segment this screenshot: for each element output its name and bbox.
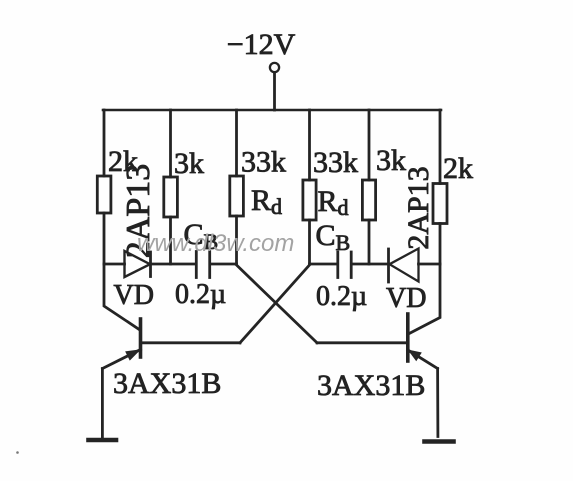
svg-text:Rd: Rd bbox=[251, 184, 282, 219]
svg-text:2k: 2k bbox=[443, 152, 473, 185]
svg-text:33k: 33k bbox=[313, 146, 358, 179]
wire right branch drop to base bbox=[408, 264, 440, 334]
transistor Q1 3AX31B (left) bbox=[103, 319, 222, 400]
wire right row segment C bbox=[419, 263, 441, 266]
wire right emitter down bbox=[436, 369, 439, 437]
wire left branch drop to base bbox=[104, 264, 140, 330]
resistor R1 2k (left) bbox=[97, 110, 138, 264]
svg-text:CB: CB bbox=[316, 219, 351, 255]
resistor R6 2k (right) bbox=[433, 110, 473, 264]
wire left row segment A bbox=[104, 263, 125, 266]
wire power drop bbox=[273, 73, 276, 111]
svg-text:0.2µ: 0.2µ bbox=[175, 279, 226, 310]
wire cross-couple diagonal B (right 33k to left collector) bbox=[240, 265, 310, 343]
wire cross-couple diagonal A (left 33k to right collector) bbox=[237, 265, 318, 343]
svg-text:VD: VD bbox=[114, 280, 154, 311]
diode VD2 2AP13 (right) bbox=[386, 249, 426, 315]
wire left emitter down bbox=[101, 369, 104, 438]
wire left collector horizontal bbox=[141, 341, 241, 344]
wire left row segment B bbox=[151, 263, 196, 266]
wire right row segment A bbox=[310, 263, 337, 266]
watermark bbox=[16, 451, 19, 454]
svg-text:VD: VD bbox=[386, 283, 426, 314]
svg-text:Rd: Rd bbox=[318, 185, 349, 220]
svg-text:−12V: −12V bbox=[227, 28, 296, 61]
svg-text:33k: 33k bbox=[241, 146, 286, 179]
resistor R5 3k (right) bbox=[362, 110, 406, 264]
svg-text:3AX31B: 3AX31B bbox=[317, 369, 425, 402]
wire right row segment B bbox=[353, 263, 389, 266]
wire right collector horizontal bbox=[317, 341, 408, 344]
resistor R2 3k (left) bbox=[164, 110, 204, 264]
wire top supply rail bbox=[103, 109, 441, 112]
svg-text:www.dl3w.com: www.dl3w.com bbox=[137, 230, 294, 257]
resistor R3 33k Rd (left) bbox=[230, 110, 286, 264]
capacitor C2 CB 0.2u (right) bbox=[316, 219, 368, 312]
ground (left) bbox=[89, 438, 117, 443]
svg-text:2AP13: 2AP13 bbox=[402, 166, 435, 249]
svg-text:3AX31B: 3AX31B bbox=[113, 367, 221, 400]
diode VD1 2AP13 (left) bbox=[114, 251, 154, 311]
svg-text:0.2µ: 0.2µ bbox=[316, 281, 367, 312]
svg-text:3k: 3k bbox=[174, 147, 204, 180]
ground (right) bbox=[425, 439, 454, 444]
power terminal -12V bbox=[227, 28, 296, 72]
wire left row segment C bbox=[211, 263, 237, 266]
capacitor C1 CB 0.2u (left) bbox=[175, 218, 226, 310]
resistor R4 33k Rd (right) bbox=[303, 110, 358, 264]
transistor Q2 3AX31B (right) bbox=[317, 314, 438, 402]
